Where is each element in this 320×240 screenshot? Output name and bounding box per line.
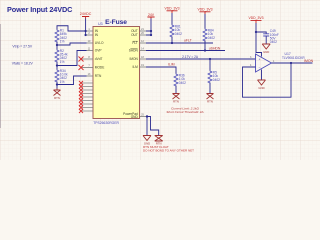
wire op-amp V- to GND — [261, 70, 263, 81]
pin FLT — [140, 42, 147, 44]
wire tap1 to UVLO — [57, 43, 87, 45]
svg-text:GND: GND — [258, 86, 264, 90]
wire FLT net — [146, 42, 213, 44]
pin IN 1 — [87, 30, 94, 32]
node divider tap1 — [56, 44, 58, 46]
wire 24VDC pole painted over in navy below bar — [85, 19, 87, 36]
wire to C49 — [256, 32, 266, 34]
svg-text:24VDC: 24VDC — [80, 12, 92, 16]
svg-text:SHDN: SHDN — [129, 49, 139, 53]
svg-text:TPS26630RGER: TPS26630RGER — [93, 121, 119, 125]
resistor R81 — [170, 25, 174, 38]
node SHDN/R84 — [204, 49, 206, 51]
svg-text:RTN: RTN — [173, 100, 179, 104]
resistor R36 — [174, 74, 178, 87]
svg-text:IMON: IMON — [304, 59, 314, 63]
pin IMON — [140, 58, 147, 60]
wire op-amp output — [272, 62, 313, 64]
pin MODE with no-ERC X — [81, 67, 93, 69]
wire R36 to RTN — [175, 86, 177, 94]
svg-text:uFLT: uFLT — [184, 39, 192, 43]
unused pin stubs with no-ERC X column — [82, 83, 93, 111]
op-amp U1 IC E-Fuse body — [93, 27, 140, 119]
wire RTN tap to RTN pin — [57, 76, 87, 85]
wire ILM net — [146, 67, 176, 74]
wire to IN pins — [85, 31, 88, 35]
svg-text:uSHDN: uSHDN — [209, 47, 221, 51]
resistor R5 — [209, 59, 211, 71]
power port RTN (R36) — [173, 94, 180, 100]
svg-text:24V: 24V — [148, 13, 155, 17]
pin OUT 20 — [140, 34, 147, 36]
svg-text:2.17V = 2A: 2.17V = 2A — [182, 55, 199, 59]
svg-text:IMON: IMON — [129, 57, 138, 61]
pin PowerPad GND — [140, 116, 147, 118]
svg-text:VDD_3V3: VDD_3V3 — [164, 7, 179, 11]
svg-text:OVP: OVP — [95, 49, 102, 53]
node divider tap2 — [56, 64, 58, 66]
svg-text:GND: GND — [263, 50, 269, 54]
svg-text:OUT: OUT — [131, 33, 138, 37]
svg-text:ILM: ILM — [132, 65, 138, 69]
resistor R34 — [55, 70, 59, 83]
pin SHDN — [140, 50, 147, 52]
wire VDD to op-amp V+ — [256, 32, 262, 57]
node FLT/R81 — [171, 42, 173, 44]
node OUT2 — [150, 34, 152, 36]
pin UVLO — [87, 42, 94, 44]
node IMON/R5 — [209, 58, 211, 60]
svg-text:0402: 0402 — [179, 81, 186, 85]
svg-text:+: + — [259, 57, 261, 61]
op-amp U17 — [256, 54, 272, 72]
svg-text:FLT: FLT — [132, 41, 137, 45]
node IN1 — [84, 30, 86, 32]
pin IN 2 — [87, 34, 94, 36]
node OUT1 — [150, 30, 152, 32]
svg-text:Vtrip = 27.5V: Vtrip = 27.5V — [12, 45, 32, 49]
wire R2 to R34 — [56, 62, 58, 70]
ground GND (op-amp) — [258, 80, 266, 85]
pin dVdT with no-ERC X — [81, 58, 93, 60]
resistor R1 — [55, 30, 59, 43]
svg-text:Vfalls = 18.2V: Vfalls = 18.2V — [12, 62, 34, 66]
resistor R84 — [203, 29, 207, 42]
node pad — [146, 115, 148, 117]
power port RTN (R5) — [207, 94, 214, 100]
wire tap2 to OVP — [57, 51, 87, 66]
svg-text:UVLO: UVLO — [95, 41, 104, 45]
svg-text:RTN: RTN — [95, 74, 102, 78]
resistor R2 — [55, 50, 59, 63]
node RTN tap — [56, 83, 58, 85]
svg-text:RTN: RTN — [54, 96, 60, 100]
wire R5 to RTN — [209, 83, 211, 94]
ground GND (pad) — [143, 136, 151, 141]
power port RTN (divider) — [54, 89, 61, 96]
svg-text:1%: 1% — [60, 39, 65, 43]
svg-text:RTN: RTN — [207, 100, 213, 104]
wire R81 to FLT net — [171, 37, 173, 44]
pin RTN — [87, 75, 94, 77]
sheet edge line — [0, 24, 2, 128]
svg-text:TLV9061IDCKR: TLV9061IDCKR — [282, 56, 305, 60]
svg-text:1%: 1% — [60, 60, 65, 64]
wire op-amp minus input / feedback — [243, 63, 292, 97]
wire divider top to IN net — [57, 26, 86, 31]
svg-text:ILIM: ILIM — [168, 63, 175, 67]
pin OVP — [87, 50, 94, 52]
svg-text:MODE: MODE — [95, 66, 105, 70]
ground GND (C49) — [262, 44, 270, 49]
wire R84 to SHDN net — [204, 41, 206, 51]
power port RTN (pad) — [155, 136, 163, 142]
wire C49 to GND — [265, 36, 267, 44]
svg-text:0402: 0402 — [213, 78, 220, 82]
svg-text:dVdT: dVdT — [95, 57, 103, 61]
svg-text:VDD_3V3: VDD_3V3 — [197, 8, 212, 12]
svg-text:0402: 0402 — [175, 32, 182, 36]
node IN2 — [84, 34, 86, 36]
node feedback — [290, 62, 292, 64]
wire SHDN net — [146, 50, 225, 52]
svg-text:0402: 0402 — [208, 36, 215, 40]
svg-text:Power Input 24VDC: Power Input 24VDC — [7, 5, 73, 14]
wire R1 to R2 — [56, 42, 58, 50]
svg-text:VDD_3V3: VDD_3V3 — [248, 16, 263, 20]
wire R34 bottom — [56, 82, 58, 89]
svg-text:0402: 0402 — [270, 40, 277, 44]
capacitor C49 — [263, 34, 269, 36]
svg-text:DO NOT BOND TO ANY OTHER NET: DO NOT BOND TO ANY OTHER NET — [143, 149, 194, 153]
svg-text:−: − — [259, 66, 261, 70]
svg-text:Short Circuit Threshold: 4A: Short Circuit Threshold: 4A — [166, 110, 203, 114]
node VDD/C49 — [255, 31, 257, 33]
wire IMON net — [146, 58, 256, 60]
pin OUT 21 — [140, 30, 147, 32]
svg-text:GND: GND — [131, 115, 139, 119]
pin ILM — [140, 66, 147, 68]
svg-text:U3: U3 — [98, 22, 103, 26]
wire PowerPad to grounds — [146, 117, 159, 136]
wire OUT merge — [146, 31, 151, 35]
svg-text:1%: 1% — [60, 80, 65, 84]
background grid — [0, 0, 320, 160]
svg-text:E-Fuse: E-Fuse — [105, 19, 127, 26]
